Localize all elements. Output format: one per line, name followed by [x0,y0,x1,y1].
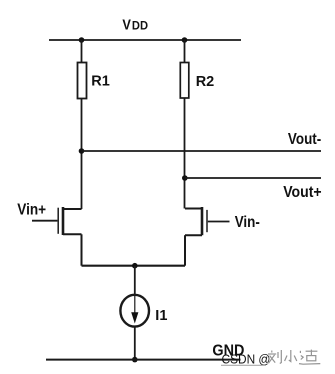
watermark glyph 刘 [268,350,281,364]
M2 gate bar [206,210,208,232]
wire: tail junction to current source [134,266,136,295]
M1 channel bar [62,207,65,235]
wire: R1 bottom down to M1 drain [81,99,83,210]
resistor R1 [78,63,87,99]
I1 arrow head [131,312,138,323]
transistor M2 (right NMOS) [185,207,230,235]
wire: VDD to R1 [81,40,83,63]
VDD rail [49,39,241,41]
wire: M1 source down [81,234,83,265]
M2 gate lead [208,221,230,223]
svg-text:Vin-: Vin- [235,214,260,231]
M2 source lead [185,234,202,236]
resistor R2 [180,63,189,99]
node: VDD/R1 junction [79,37,85,43]
current source I1 [120,295,149,327]
wire: M2 source down [184,235,186,266]
node: tail junction [132,263,138,269]
svg-text:R1: R1 [91,74,110,90]
wire: current source to GND [134,327,136,360]
M1 source lead [63,233,82,235]
watermark CSDN @ [222,352,271,366]
watermark glyph 适 [299,350,320,365]
VDD label [122,15,148,32]
GND rail [46,359,241,361]
node: Vout- junction [79,148,85,154]
M2 drain lead [185,208,202,210]
svg-text:CSDN @: CSDN @ [222,352,271,366]
svg-text:Vin+: Vin+ [17,201,46,218]
wire: Vout- output line [82,150,322,152]
wire: Vout+ output line [185,177,321,179]
wire: R2 bottom down to M2 drain [184,98,186,209]
I1 arrow shaft [134,295,136,313]
node: Vout+ junction [182,175,188,181]
M1 gate bar [57,208,59,234]
svg-text:I1: I1 [155,308,167,324]
M1 gate lead [32,220,57,222]
svg-text:Vout+: Vout+ [283,183,322,201]
node: VDD/R2 junction [182,37,188,43]
watermark underline [221,364,266,366]
watermark glyph 小 [285,350,297,362]
svg-text:V: V [122,15,131,32]
svg-text:DD: DD [132,20,148,32]
node: GND junction [132,357,138,363]
svg-text:Vout-: Vout- [288,131,321,148]
wire: VDD to R2 [184,40,186,63]
M2 channel bar [201,207,204,235]
svg-text:R2: R2 [196,74,215,90]
transistor M1 (left NMOS) [32,207,82,235]
wire: tail rail [82,265,186,267]
M1 drain lead [63,208,82,210]
